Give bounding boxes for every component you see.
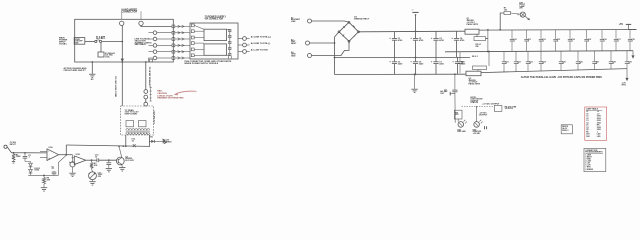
capacitor C21 bypass -12 rail (503, 51, 505, 61)
resistor R10 stub (484, 126, 486, 129)
capacitor C23 bypass -12 rail (527, 51, 529, 61)
ground under C17 (89, 181, 95, 183)
wire minus rail (335, 56, 471, 58)
wire C17 to ground (92, 180, 94, 182)
connector lug on box A bottom (121, 59, 124, 62)
svg-text:COIL: COIL (105, 56, 111, 58)
wire A1 to bridge (312, 21, 350, 22)
wire divider vertical (487, 30, 489, 52)
wire +5V output rail (479, 29, 637, 32)
terminal +12V raw (162, 139, 164, 143)
wire 115VAC line cord down (121, 62, 123, 106)
capacitor C5 filter neg (394, 58, 396, 62)
svg-text:.1: .1 (542, 41, 544, 43)
svg-text:LAMP TABLE: LAMP TABLE (586, 108, 599, 111)
fuse F1 4A slo-blo (95, 40, 97, 42)
wire bias rail (28, 174, 58, 176)
wire R7 to lamp (511, 13, 521, 14)
wire ground stub on return bus (414, 74, 416, 88)
pin J2-3 primary connector (144, 102, 148, 106)
LED DS1 -12 indicator (458, 122, 464, 128)
wire output riser to bus (65, 145, 67, 155)
wire U1A output (59, 154, 73, 156)
pin A1 AC line in (308, 19, 312, 23)
svg-text:.1: .1 (617, 41, 619, 43)
svg-text:PRESENT ON THESE PINS: PRESENT ON THESE PINS (157, 98, 184, 100)
wire C2 to diode string (25, 162, 31, 163)
op-amp U1B (74, 156, 86, 165)
svg-text:.1: .1 (528, 41, 530, 43)
LED DS2 +5 indicator (474, 122, 480, 128)
wire raw positive rail (359, 30, 466, 33)
svg-text:.1: .1 (557, 41, 559, 43)
capacitor C16 series coupling (96, 158, 98, 162)
node E1 junction on box A bottom (91, 61, 93, 63)
pin P2 on top edge of box A (139, 21, 143, 25)
terminal block TB1 in T1 (126, 121, 134, 127)
transistor Q3 relay driver (116, 157, 124, 165)
wire pin to transformer box (145, 105, 147, 107)
ground under R4 (41, 187, 47, 189)
svg-text:SW: SW (75, 43, 78, 45)
wire C3 to ground (72, 167, 74, 173)
svg-text:5W: 5W (476, 46, 479, 48)
capacitor C3 coupling electrolytic (72, 155, 74, 162)
wire C16 to base node (99, 159, 117, 161)
bridge rectifier D1 (339, 22, 359, 41)
wire Q3 collector to bus (119, 146, 122, 157)
capacitor C17 bypass +5 rail (615, 30, 617, 39)
wire dashed drop right from label (140, 11, 142, 19)
terminal -12V end (626, 69, 628, 78)
chassis ground E1 (89, 73, 95, 75)
diode D5 rectifier (149, 140, 151, 142)
svg-text:U1B: U1B (76, 154, 81, 156)
wire R7 to +5 rail (500, 13, 504, 30)
svg-text:SEE TABLE: SEE TABLE (135, 43, 147, 46)
input jack J1 (4, 145, 7, 148)
capacitor C16 bypass +5 rail (601, 30, 603, 39)
pin P1 on top edge of box A (120, 21, 124, 25)
svg-text:BRIDGE RECT: BRIDGE RECT (354, 18, 370, 20)
svg-text:115 VAC LINE CORD: 115 VAC LINE CORD (114, 76, 117, 98)
svg-text:TO XFMR PRIMARY: TO XFMR PRIMARY (148, 67, 151, 88)
wire ground bus (445, 51, 633, 52)
capacitor C29 bypass -12 rail (626, 51, 628, 62)
capacitor C13 bypass +5 rail (555, 30, 557, 39)
enclosure box chassis A (75, 19, 174, 62)
wire A3 to bridge bottom (312, 41, 350, 55)
enclosure box B power supply connector (190, 23, 238, 59)
terminal T1 line to eta plus (243, 37, 247, 41)
svg-text:ALTHO THE PARALLEL HAVE .1UF B: ALTHO THE PARALLEL HAVE .1UF BYPASS CAPS… (521, 76, 602, 79)
resistor R8 box on -12 feed (454, 110, 462, 119)
svg-text:STEP DOWN: STEP DOWN (125, 114, 138, 116)
svg-text:22K: 22K (47, 179, 51, 181)
svg-text:OUTPUT: OUTPUT (479, 114, 488, 116)
svg-text:GND: GND (291, 56, 296, 58)
capacitor C12 bypass +5 rail (540, 30, 542, 39)
capacitor C2 input coupling (24, 152, 26, 154)
svg-text:100K: 100K (16, 156, 21, 158)
pin squares on box B inner bus (229, 29, 231, 31)
wires box B to output terminals (238, 38, 243, 40)
capacitor C1 filter (394, 31, 396, 38)
capacitor C18 base bypass (108, 160, 110, 162)
capacitor C15 bypass +5 rail (586, 30, 588, 39)
terminal T3 24v to eta (243, 50, 247, 54)
svg-text:DWG 2: DWG 2 (562, 130, 568, 132)
svg-text:INSIDE POWER SUPPLY MODULE: INSIDE POWER SUPPLY MODULE (184, 63, 218, 65)
svg-text:.1: .1 (542, 63, 544, 65)
pin J2-2 primary connector (144, 95, 148, 99)
svg-text:+5 VDC OUTPUT: +5 VDC OUTPUT (482, 103, 500, 105)
wire tap to minus output (454, 74, 456, 89)
capacitor C8 filter neg (457, 57, 459, 61)
relay contact pins inside box A (153, 31, 157, 35)
capacitor C27 bypass -12 rail (594, 51, 596, 61)
terminal +5V out (629, 29, 637, 31)
svg-text:.1: .1 (612, 63, 614, 65)
ground on return bus (411, 88, 417, 90)
wire return bus lower (335, 73, 466, 75)
resistor R6 base (473, 66, 487, 70)
svg-text:1/4 W 5%: 1/4 W 5% (505, 107, 514, 110)
svg-text:.1: .1 (505, 63, 507, 65)
capacitor C17 electrolytic 10uF (92, 168, 93, 172)
wire secondary left leg (125, 135, 127, 146)
svg-text:SLO-BLO: SLO-BLO (96, 38, 106, 40)
jumper option block 1 (204, 29, 227, 40)
primary winding of T1 (126, 129, 150, 130)
svg-text:PASS XSTR: PASS XSTR (469, 82, 481, 85)
terminal V+ sense (412, 11, 418, 13)
svg-text:UNREG: UNREG (164, 141, 172, 143)
tick strip beside primary pins (150, 87, 152, 102)
capacitor C10 bypass +5 rail (511, 30, 513, 39)
op-amp U1A (47, 149, 59, 161)
terminal T2 line to eta minus (243, 43, 247, 47)
transistor Q1 +5V pass (465, 29, 479, 34)
diode D3 clamp (29, 169, 33, 172)
terminal -12V out tap (449, 92, 451, 96)
capacitor C18 bypass +5 rail (629, 30, 631, 39)
wire A2 to bridge node (310, 42, 335, 44)
capacitor C6 filter neg (415, 58, 417, 62)
svg-text:.1: .1 (529, 63, 531, 65)
capacitor C15 on bus (133, 144, 136, 147)
svg-text:+5V IND: +5V IND (473, 133, 481, 135)
ground under Q3 (119, 167, 125, 169)
svg-text:.1: .1 (513, 41, 515, 43)
red arrow annotation (175, 91, 196, 94)
wire noninverting input (40, 157, 47, 159)
wire -12V output rail (481, 69, 627, 73)
wires pins to arrows to box B (175, 25, 190, 27)
wires pins to option blocks (194, 25, 204, 29)
svg-text:RTN: RTN (622, 84, 627, 86)
ground under C18 (106, 168, 112, 170)
svg-text:INPUT: INPUT (10, 144, 17, 146)
capacitor C25 bypass -12 rail (560, 51, 562, 61)
svg-text:U1A: U1A (49, 146, 54, 149)
wire inverting input stub (44, 151, 47, 153)
ground under C3 (69, 172, 75, 174)
svg-text:47K: 47K (94, 164, 98, 167)
relay K1 coil 115VAC (98, 52, 104, 57)
wire bridge minus leg (335, 32, 340, 75)
resistor R1 input load (13, 152, 15, 154)
svg-text:LINE: LINE (291, 21, 296, 23)
core of T1 (126, 130, 150, 132)
svg-text:CONNECTOR: CONNECTOR (122, 11, 138, 14)
wire bias rail riser (58, 155, 66, 175)
wire Q3 emitter to ground (121, 164, 124, 167)
wire low voltage bus (66, 145, 150, 146)
svg-text:PASS XSTR: PASS XSTR (467, 23, 479, 26)
ground arrow end of bus (632, 51, 634, 56)
feedthrough pins on box A right edge (172, 25, 175, 28)
svg-text:.1: .1 (588, 41, 590, 43)
wire to chassis ground (91, 62, 93, 74)
svg-text:A1 LINE TO ETA (+): A1 LINE TO ETA (+) (251, 35, 271, 38)
diode D2 clamp (29, 163, 33, 166)
pin A3 AC line in (308, 54, 312, 58)
svg-text:DS2: DS2 (586, 136, 589, 138)
transformer T1 module dashed box (121, 106, 154, 135)
svg-text:R6 0.1: R6 0.1 (472, 56, 479, 58)
wire between primary pins (145, 99, 147, 102)
svg-text:RED LED: RED LED (457, 131, 466, 133)
resistor R7 pilot dropping (504, 12, 511, 15)
wire transformer primary feed (145, 62, 147, 90)
svg-text:.1: .1 (461, 63, 463, 65)
capacitor C7 filter neg (435, 58, 437, 62)
svg-text:150: 150 (504, 9, 507, 11)
wire input to amp (7, 147, 47, 153)
wire inverting feedback stub (40, 151, 44, 153)
parts list lower box (584, 148, 606, 171)
capacitor C24 bypass -12 rail (540, 51, 542, 61)
capacitor C9 minus out (452, 89, 457, 91)
svg-text:-: - (48, 149, 49, 153)
wire U1B output (86, 159, 97, 161)
jumper option block 2 (204, 44, 227, 55)
capacitor C28 bypass -12 rail (610, 51, 612, 61)
svg-text:.1: .1 (603, 41, 605, 43)
sense tap vertical wire (415, 15, 417, 31)
svg-text:A3 +24V TO ETA: A3 +24V TO ETA (251, 48, 268, 51)
capacitor C11 bypass +5 rail (526, 30, 528, 39)
lamp DS3 pilot (520, 12, 525, 17)
capacitor C22 bypass -12 rail (515, 51, 517, 61)
svg-text:.1: .1 (631, 41, 633, 43)
svg-text:VIA CONNECTOR: VIA CONNECTOR (205, 18, 224, 21)
capacitor C26 bypass -12 rail (577, 51, 579, 61)
capacitor C4 filter (456, 31, 458, 38)
resistor R4 base (474, 37, 486, 41)
switch S1 power on/off (74, 38, 85, 45)
capacitor C14 bypass +5 rail (569, 30, 571, 39)
node transformer feed junction (145, 61, 147, 63)
svg-text:+5V: +5V (619, 23, 624, 26)
wire base divider (486, 38, 488, 40)
wire dashed drop left from label (121, 11, 123, 19)
svg-text:.1: .1 (571, 41, 573, 43)
svg-text:CIRCUIT BRD GND PT: CIRCUIT BRD GND PT (64, 70, 87, 72)
capacitor C3a filter (435, 31, 437, 38)
svg-text:.01: .01 (51, 168, 54, 170)
wire switch to fuse (85, 41, 95, 43)
wire vertical main feed in box A (121, 26, 123, 63)
svg-text:115VAC: 115VAC (59, 42, 67, 45)
svg-text:470: 470 (455, 113, 458, 116)
wire from pin P2 to right pin row (141, 26, 172, 27)
svg-text:.1: .1 (579, 63, 581, 65)
terminal stub wires (246, 38, 249, 40)
resistor R9 box (494, 105, 502, 111)
wire node down to relay K1 (100, 43, 102, 52)
svg-text:STATUS: STATUS (470, 101, 478, 104)
transistor Q2 -12V pass (466, 71, 481, 76)
pin A2 AC line in (306, 41, 310, 45)
callout small box rev note (561, 125, 572, 134)
svg-text:.1: .1 (517, 63, 519, 65)
svg-text:A2 LINE TO ETA (-): A2 LINE TO ETA (-) (251, 42, 271, 45)
secondary winding of T1 (126, 133, 150, 134)
wire dashed +5 indicator feed (462, 105, 495, 107)
terminal block TB2 in T1 (139, 121, 147, 127)
svg-text:8 SPARE: 8 SPARE (585, 168, 593, 171)
svg-text:.1: .1 (562, 63, 564, 65)
resistor R3 47K to ground leg (91, 160, 93, 162)
wire R8 to LED1 (457, 119, 459, 122)
pin J2-1 primary connector (144, 90, 148, 94)
wire secondary right leg (148, 135, 150, 146)
svg-text:NEUT: NEUT (291, 43, 297, 45)
wire minus out down (454, 92, 456, 123)
node line cord junction (121, 61, 123, 63)
ink blot mark (163, 139, 167, 144)
svg-text:.1: .1 (596, 63, 598, 65)
capacitor C2a filter (415, 31, 417, 38)
wire q2 divider vertical (488, 52, 490, 67)
parts table red box (585, 107, 607, 140)
resistor R4 22K to ground (43, 175, 45, 177)
wire fuse to node (102, 41, 123, 43)
relay contact marks bottom left (148, 58, 150, 62)
pins on left edge of box B (191, 24, 194, 27)
bus bar in box B (229, 30, 231, 56)
svg-text:RLY DVR: RLY DVR (125, 160, 134, 162)
chassis arrow from lamp (525, 16, 529, 19)
capacitor C20 bypass -12 rail (459, 52, 461, 62)
cap marks in box B (228, 56, 230, 59)
svg-text:.1: .1 (628, 63, 630, 65)
